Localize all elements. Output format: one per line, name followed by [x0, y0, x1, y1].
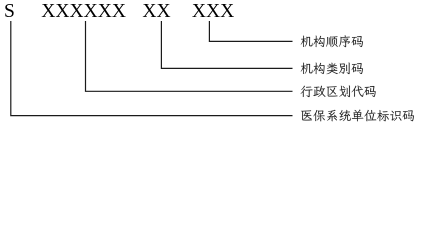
label 医保系统单位标识码: [301, 110, 414, 122]
code group XXXXXX (administrative division): [41, 0, 126, 23]
leader line for 机构类别码 (from XX): [161, 21, 292, 68]
leader line for 行政区划代码 (from XXXXXX): [86, 21, 293, 91]
leader line for 机构顺序码 (from XXX): [209, 21, 292, 41]
label 行政区划代码: [301, 85, 376, 97]
code group XXX (organization sequence): [192, 0, 234, 23]
label 机构顺序码: [301, 35, 363, 47]
label 机构类别码: [301, 63, 363, 75]
code group S: [4, 0, 15, 23]
code group XX (organization category): [142, 0, 170, 23]
leader line for 医保系统单位标识码 (from S): [11, 21, 293, 116]
